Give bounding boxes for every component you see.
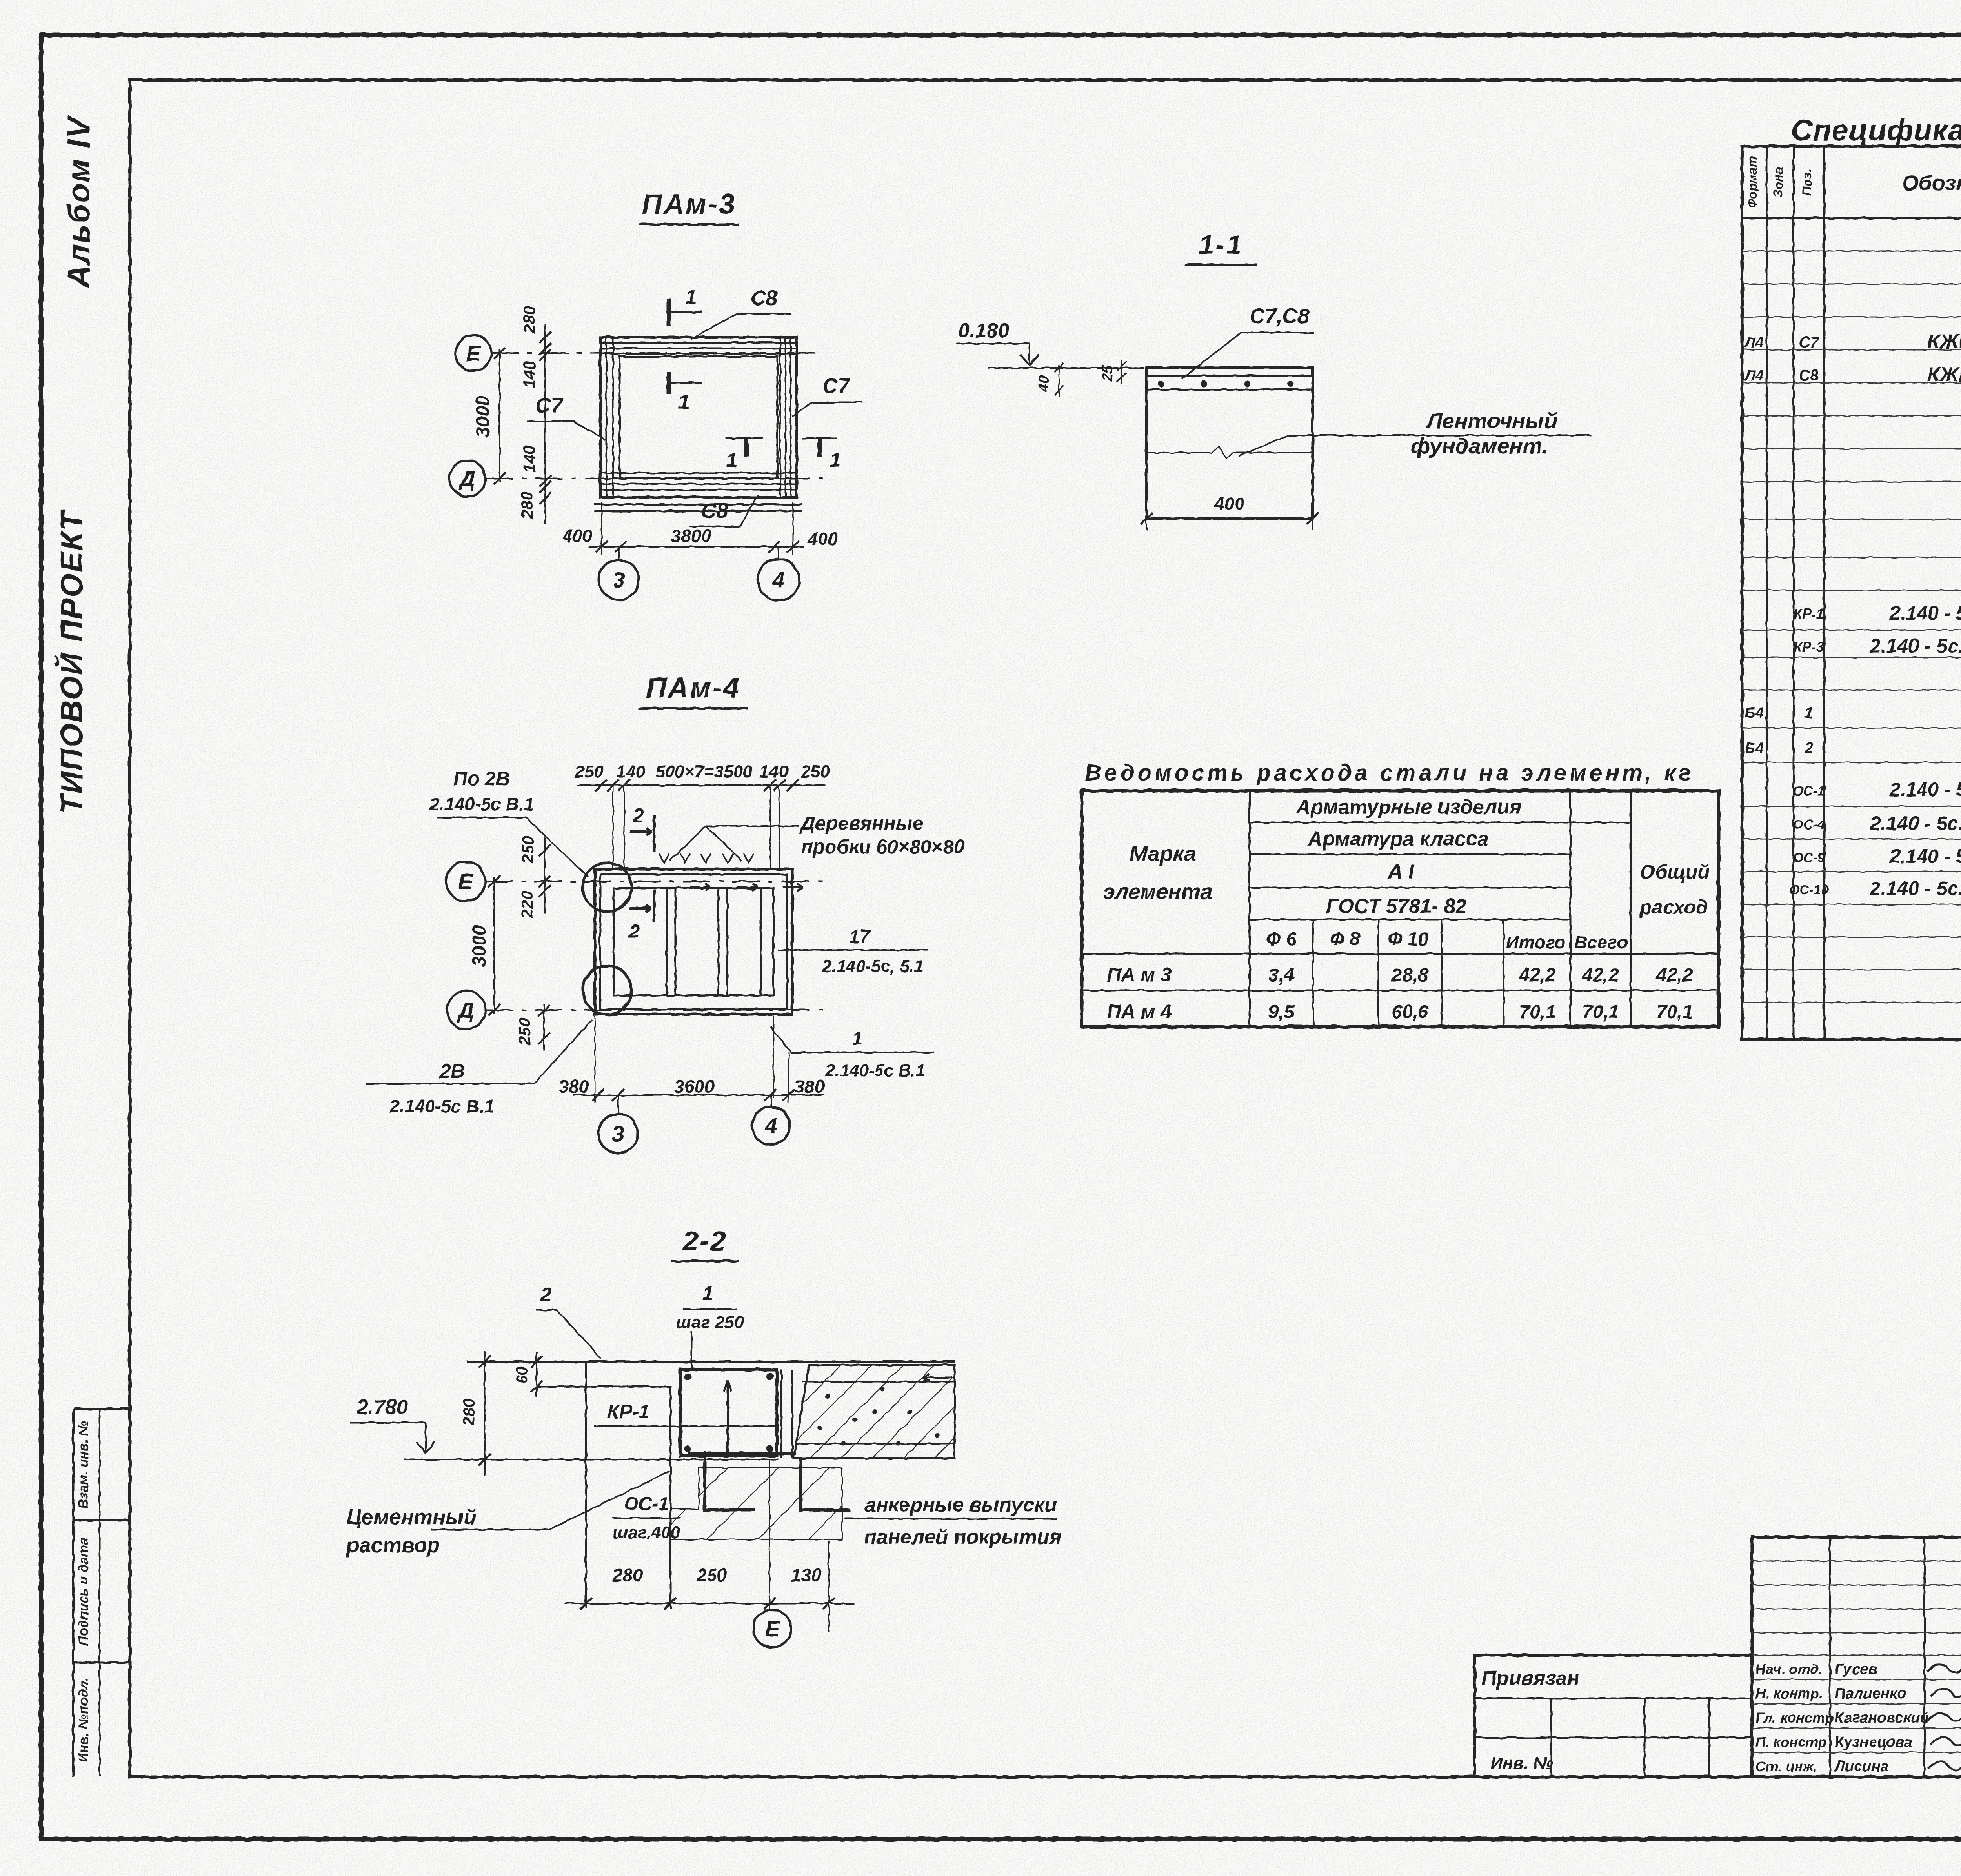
margin stamp strip [72,1409,75,1777]
steel table verticals [1249,791,1251,1027]
node callout circle upper [583,863,631,912]
axis circle 4 [758,559,799,600]
wooden plug marks [659,853,669,863]
specification header bottom [1742,217,1961,219]
ПАм-4 edge dimension chain bottom [543,1003,545,1051]
ПАм-4 inner carcass bars [666,888,668,995]
section mark 1 (right horizontal) [802,437,837,439]
1-1 break line [1146,446,1313,459]
axis circle Е (ПАм-4) [446,862,485,901]
anchor bar ОС-1 right [800,1458,851,1510]
belt 60 offset line [537,1386,671,1388]
ПАм-4 mesh frame second contour [600,874,787,1009]
axis line Д [486,478,824,479]
ПАм-3 bottom mesh bars [594,504,802,506]
axis line Д (ПАм-4) [486,1009,828,1011]
ПАм-3 right mesh band bars [779,337,781,497]
axis line 4 (ПАм-4) [770,1095,772,1108]
level line / belt bottom [404,1459,779,1460]
steel table frame [1082,791,1719,1027]
ПАм-3 axis-to-axis dimension 3000 [499,349,500,482]
axis line 3 [618,547,620,559]
1-1 rebar dots [1158,381,1164,387]
belt right edge / extension [669,1387,671,1608]
leader 1 / 2.140-5с В.1 (bottom right) [770,1027,933,1052]
belt left edge [585,1362,587,1608]
title block: signature table [1752,1537,1961,1777]
specification verticals [1766,146,1768,1039]
ПАм-3 mesh frame outer contour [600,337,797,497]
dimension 25 [1121,360,1122,384]
axis line Е (ПАм-4) [485,881,828,882]
title block: привязан box [1475,1655,1752,1777]
ПАм-3 bottom mesh band bars [600,472,797,474]
specification frame [1742,146,1961,1039]
axis line Е [491,352,824,354]
node callout circle lower [583,966,631,1015]
specification row lines [1742,251,1961,252]
ПАм-4 mesh frame outer contour [595,869,792,1014]
2-2 bottom dimension chain [565,1603,855,1604]
section mark 1 (inner) [667,373,671,394]
panel pointer arrow [922,1377,952,1379]
1-1 top mesh band [1146,375,1313,377]
section mark 1 (top) [667,299,671,326]
ПАм-4 axis-to-axis dimension 3000 [493,877,495,1014]
axis circle 4 (ПАм-4) [752,1107,790,1145]
ПАм-4 inner top bar arrows [690,886,711,888]
ПАм-3 bottom dimension chain [588,546,804,548]
axis circle Д [449,460,486,497]
axis circle Д (ПАм-4) [447,991,486,1029]
anchor bar ОС-1 left [705,1451,755,1510]
belt top line [467,1361,955,1363]
axis circle 3 (ПАм-4) [598,1114,638,1153]
joint verticals [780,1370,782,1458]
1-1 beam outline [1146,368,1313,519]
ПАм-3 top mesh band bars [600,342,797,344]
lower hatched masonry [670,1468,842,1539]
ПАм-3 edge dimension chain 280/140 [544,324,546,524]
axis circle 3 [599,560,639,600]
2-2 left dimension 60 [536,1352,537,1396]
axis line 3 (ПАм-4) [617,1095,619,1115]
signatures [1928,1658,1961,1672]
1-1 bottom dimension 400 [1141,513,1152,524]
axis circle Е [455,335,491,371]
precast roof panel (hatched) [793,1365,955,1458]
axis circle Е (2-2) [753,1610,791,1647]
2-2 left dimension 280 [484,1351,486,1476]
ПАм-4 edge dimension chain top [544,837,546,914]
bottom anchor bar [688,1452,796,1456]
ПАм-3 left mesh band bars [606,337,607,497]
carcass cage КР-1 [680,1370,777,1456]
steel table horizontals [1250,822,1631,823]
ПАм-4 inner contour [614,888,773,995]
dimension 40 [1059,365,1060,397]
leader 17 / 2.140-5с.5.1 (right) [779,949,928,951]
axis line 4 [778,547,779,558]
ПАм-3 mesh frame inner contour [620,357,777,478]
